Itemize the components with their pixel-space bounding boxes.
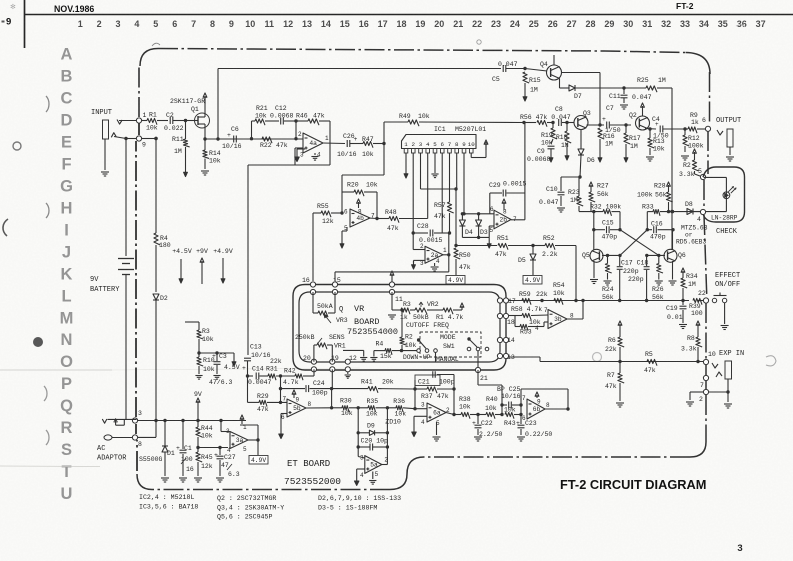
wire 9V rail <box>138 420 246 422</box>
IC1 pin6 wire <box>441 153 443 233</box>
scan artifact fold line <box>0 369 112 371</box>
board boundary right edge lower <box>705 303 707 359</box>
board boundary left edge <box>136 440 138 471</box>
wire c14 bus <box>248 375 254 377</box>
wire source bus <box>205 138 303 140</box>
pin 22 <box>703 298 708 303</box>
pin 1 input <box>136 118 141 123</box>
wire 4b output <box>368 217 377 220</box>
wire R55 to VR pin16 <box>312 213 314 281</box>
capacitor C25 <box>500 403 503 406</box>
wire C6 riser <box>251 121 253 139</box>
led LN-28RP <box>723 192 730 199</box>
pin 4 check <box>700 209 705 214</box>
left margin rule <box>24 0 26 48</box>
wire 3a feedback <box>220 421 222 432</box>
wire C12 junction drop <box>295 121 297 139</box>
IC1 pin2 wire <box>412 153 414 250</box>
wire Q5 base <box>602 254 620 256</box>
wire R51 bus <box>456 245 497 247</box>
board boundary right edge upper <box>709 72 711 125</box>
wire R16 node <box>599 123 601 126</box>
switch SW1b <box>467 347 471 351</box>
wire pin2 ground <box>690 391 703 393</box>
wire c21 loop <box>414 380 416 389</box>
scan artifact ghost circle <box>593 353 602 362</box>
wire bias riser <box>280 376 282 402</box>
wire R32 to C15 <box>612 211 621 213</box>
wire input to pin1 <box>119 120 136 122</box>
ground 4a <box>297 148 305 150</box>
wire 5b output <box>306 407 332 409</box>
grid column numbers <box>78 19 766 29</box>
wire R42 to pin20 <box>313 369 315 376</box>
wire Q5 collector <box>593 212 595 250</box>
wire 2a output loop <box>443 254 449 256</box>
input jack <box>103 120 109 139</box>
scan artifact arcs <box>46 96 49 112</box>
resistor R21 <box>252 120 256 122</box>
wire 5a in <box>358 457 365 459</box>
wire Q4 to R16 node <box>559 79 561 89</box>
pin 3 ac <box>132 418 137 423</box>
wire 4a output <box>323 142 345 145</box>
resistor R31 <box>268 374 276 380</box>
wire 6b output loop <box>544 408 568 410</box>
output jack <box>727 129 733 147</box>
wire node9 left <box>114 137 126 139</box>
wire 6a out <box>446 413 454 415</box>
output tip contact <box>717 130 723 135</box>
board boundary bottom right curve <box>705 395 707 442</box>
wire pin8 right <box>138 436 156 438</box>
ground Q6 <box>672 261 674 280</box>
wire Q4 right <box>562 72 601 74</box>
VR pin 21 <box>475 367 480 372</box>
input ring contact <box>111 133 116 138</box>
wire Q1 source <box>204 124 206 139</box>
wire 4a to 4b drop <box>383 144 385 176</box>
ground R4 <box>373 351 375 357</box>
scan artifact squiggle top <box>152 43 160 46</box>
wire control bus <box>506 300 689 302</box>
voltage label 4.9V box b <box>523 276 542 285</box>
wire exp bus <box>506 356 540 358</box>
ac plug <box>104 435 112 440</box>
wire bus to R56 <box>524 122 536 124</box>
capacitor C21 box <box>415 375 440 386</box>
pin 7 exp <box>703 375 708 380</box>
exp jack <box>725 361 732 379</box>
wire r35 r36 <box>376 407 397 409</box>
wire D34 bottom <box>462 236 489 238</box>
scan artifact hole left <box>13 142 21 150</box>
wire 3b output <box>566 318 583 320</box>
wire C29 riser <box>524 123 526 220</box>
ground R14 <box>201 170 209 172</box>
ground input jack <box>101 171 109 173</box>
IC1 pin10 wire <box>470 153 472 158</box>
wire 2b pin5 <box>489 225 494 227</box>
pin 2 exp <box>703 389 708 394</box>
wire 5a gnd pin4 <box>357 468 365 470</box>
wire r30 r35 <box>349 407 368 409</box>
IC1 pin4 wire <box>427 153 429 219</box>
label 4.5V node <box>233 353 235 357</box>
wire 2a inputs <box>413 249 425 251</box>
ground VR1 wiper <box>343 349 364 351</box>
wire pins38 drop <box>455 189 457 246</box>
resistor R46 <box>296 120 308 122</box>
capacitor C14 <box>255 373 257 380</box>
pin 10 exp <box>703 359 708 364</box>
wire R46 feedback loop <box>329 121 331 165</box>
input tip contact <box>117 120 122 125</box>
ground output jack <box>726 156 734 158</box>
scan artifact arc right <box>766 356 776 366</box>
wire Q2 emitter <box>645 128 656 131</box>
capacitor C8 <box>558 119 560 126</box>
IC1 pin8 wire <box>456 153 458 189</box>
mode switch box <box>420 332 481 357</box>
VR pin 11 <box>389 282 394 287</box>
IC1 pin3 wire <box>420 153 422 189</box>
scan artifact dot left <box>33 337 43 347</box>
wire d9 loop right <box>386 408 388 465</box>
IC1 pin1 wire <box>405 153 407 175</box>
VR board outline outer <box>293 285 506 371</box>
wire pin21 drop <box>477 370 479 385</box>
wire R4 branch <box>155 139 157 234</box>
wire cross coupling a <box>620 230 659 256</box>
pin 5 check <box>700 174 705 179</box>
wire 5a output <box>382 464 388 466</box>
ground 5a pin5 <box>372 472 374 480</box>
wire 5b minus stub <box>281 413 287 415</box>
ac switch notch <box>115 419 117 425</box>
VR board outline inner <box>299 292 500 362</box>
check box outline <box>703 167 745 222</box>
pin 9 input <box>136 136 141 141</box>
IC1 pin9 wire <box>463 153 465 214</box>
pin 6 output <box>705 126 710 131</box>
ground pin11 <box>388 314 396 316</box>
ground 2a <box>434 263 436 266</box>
wire pin19 drop <box>331 369 333 388</box>
pin 8 ac <box>132 435 137 440</box>
wire exp jack ground <box>727 379 729 392</box>
voltage label 4.9V box c <box>249 456 268 465</box>
wire r37 drop <box>414 389 416 409</box>
exp tip contact <box>712 363 718 368</box>
wire R52 drop <box>575 246 577 301</box>
resistor R42 <box>295 374 303 380</box>
resistor R56 <box>537 120 547 126</box>
switch SW1a <box>417 349 421 353</box>
ac tip contact <box>102 419 107 423</box>
wire 2b input <box>462 213 494 215</box>
wire 4.5V rail riser <box>247 165 249 355</box>
ground 6a <box>436 422 438 435</box>
wire 3a input <box>198 447 228 449</box>
ground Q5 <box>593 261 595 278</box>
scan artifact hook left <box>3 219 8 236</box>
wire battery to rail <box>125 278 127 420</box>
wire Q3 emitter bus <box>587 124 605 126</box>
grid row letters <box>60 46 74 504</box>
page header rule <box>25 14 793 16</box>
wire d9 loop left <box>357 408 359 457</box>
wire 3a output <box>248 439 258 441</box>
wire R33 to C16 <box>646 212 648 230</box>
wire R20 box <box>376 192 378 219</box>
wire 6a arrow <box>414 415 427 417</box>
ground pin12 <box>347 372 349 374</box>
wire cross coupling b <box>620 230 647 256</box>
wire 6a minus <box>415 408 427 410</box>
IC1 pin7 wire <box>449 153 451 202</box>
wire Q6 base <box>647 254 665 256</box>
wire feedback top left <box>217 69 219 140</box>
wire 3a to 49v <box>257 440 259 455</box>
wire riser to R49 <box>383 122 385 144</box>
wire Q1 drain supply <box>204 96 206 117</box>
wire R25 drop long <box>671 88 673 250</box>
voltage label 4.9V box a <box>446 276 465 285</box>
wire 2b output <box>511 219 525 221</box>
wire to VR pin15 <box>334 272 336 281</box>
wire Q4 collector <box>553 55 555 65</box>
pin 11 drop <box>391 292 393 310</box>
wire sw stub <box>435 353 437 362</box>
exp ring contact <box>716 372 722 377</box>
wire flipflop left <box>579 211 603 213</box>
board boundary top edge <box>140 49 158 67</box>
capacitor C12 <box>265 120 279 122</box>
IC1 pin5 ground <box>434 153 436 173</box>
wire node9 right <box>142 138 157 140</box>
wire D6 node <box>561 176 580 178</box>
wire check loop <box>704 176 727 178</box>
wire battery drop <box>125 139 127 257</box>
